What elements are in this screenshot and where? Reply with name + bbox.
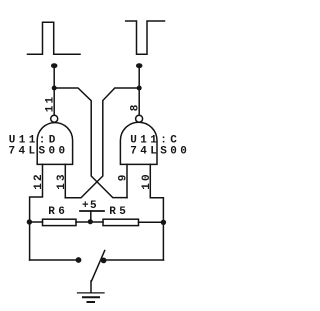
- wire: left rail to R6: [30, 221, 43, 223]
- label R6: [48, 206, 68, 218]
- wire: R5 to right rail: [139, 221, 164, 223]
- value 74LS00 right: [130, 146, 190, 158]
- svg-text:74LS00: 74LS00: [130, 146, 190, 158]
- node: right probe dot: [136, 63, 142, 68]
- op-amp U11:D body (NAND gate left): [37, 123, 72, 165]
- junction: +5 tap node: [88, 219, 93, 224]
- pin number 13: [56, 172, 68, 190]
- ground: [78, 293, 105, 302]
- label R5: [109, 206, 129, 218]
- label +5: [82, 200, 98, 212]
- pin number 8: [129, 102, 141, 111]
- junction: left output node: [52, 86, 57, 91]
- svg-text:11: 11: [44, 95, 56, 113]
- wire: right gate output vertical: [138, 66, 140, 116]
- svg-text:+5: +5: [82, 200, 98, 212]
- svg-text:74LS00: 74LS00: [9, 146, 69, 158]
- wire: pin 13 lead: [64, 164, 66, 197]
- wire: pin 12 lead to left rail: [30, 164, 43, 260]
- label U11:C: [130, 134, 180, 146]
- svg-text:R6: R6: [48, 206, 68, 218]
- wire: pin 9 lead: [126, 164, 128, 197]
- pin number 12: [33, 172, 45, 190]
- svg-text:10: 10: [141, 172, 153, 190]
- waveform marker W1 (positive pulse): [28, 22, 81, 54]
- wire: cross link B (right output to pin 13): [65, 88, 139, 198]
- switch S1 lever: [92, 251, 105, 282]
- wire: switch row left: [30, 259, 79, 261]
- waveform marker W2 (negative pulse): [126, 21, 165, 54]
- svg-text:U11:D: U11:D: [9, 134, 59, 146]
- op-amp U11:D bubble: [51, 115, 58, 122]
- op-amp U11:C bubble: [136, 115, 143, 122]
- value 74LS00 left: [9, 146, 69, 158]
- op-amp U11:C body (NAND gate right): [120, 122, 157, 164]
- junction: right rail node: [161, 220, 166, 225]
- wire: R6 to +5 node: [76, 221, 103, 223]
- resistor R5: [103, 219, 139, 225]
- wire: switch row right: [104, 259, 164, 261]
- svg-text:R5: R5: [109, 206, 129, 218]
- wire: left gate output vertical: [53, 66, 55, 116]
- node: switch throw contact right: [101, 258, 107, 264]
- node: left probe dot: [51, 63, 57, 68]
- svg-text:12: 12: [33, 172, 45, 190]
- junction: right output node: [137, 86, 142, 91]
- junction: left rail node: [27, 219, 32, 224]
- wire: switch common to ground: [90, 281, 92, 293]
- node: switch throw contact left: [76, 257, 82, 263]
- wire: cross link A (left output to pin 9): [54, 88, 127, 198]
- pin number 9: [118, 172, 130, 181]
- pin number 11: [44, 95, 56, 113]
- pin number 10: [141, 172, 153, 190]
- resistor R6: [43, 219, 77, 225]
- wire: pin 10 lead to right rail: [150, 164, 163, 260]
- label U11:D: [9, 134, 59, 146]
- svg-text:U11:C: U11:C: [130, 134, 180, 146]
- svg-text:13: 13: [56, 172, 68, 190]
- svg-text:9: 9: [118, 172, 130, 181]
- power +5 supply bar: [80, 211, 104, 222]
- svg-text:8: 8: [129, 102, 141, 111]
